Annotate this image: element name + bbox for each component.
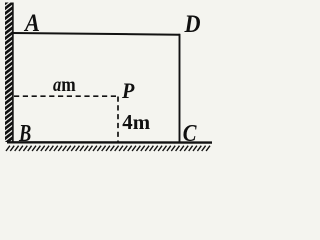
svg-text:D: D — [184, 10, 201, 38]
svg-text:A: A — [23, 10, 40, 38]
wall (hatched vertical band, left) — [3, 0, 17, 148]
ground hatching — [6, 146, 210, 151]
wire: dashed horizontal (a m level) — [14, 95, 120, 97]
svg-text:m: m — [61, 74, 76, 95]
wire: top side AD — [13, 33, 180, 35]
wire: right side DC — [179, 34, 181, 142]
wire: dashed vertical (4 m drop) — [117, 97, 119, 142]
svg-text:P: P — [121, 78, 135, 103]
wall right edge / side AB — [12, 3, 14, 143]
svg-text:a: a — [53, 74, 61, 96]
background paper — [0, 0, 220, 160]
svg-text:C: C — [183, 120, 198, 147]
svg-text:B: B — [18, 120, 31, 147]
ground line BC — [7, 141, 212, 144]
svg-text:4m: 4m — [122, 110, 150, 134]
